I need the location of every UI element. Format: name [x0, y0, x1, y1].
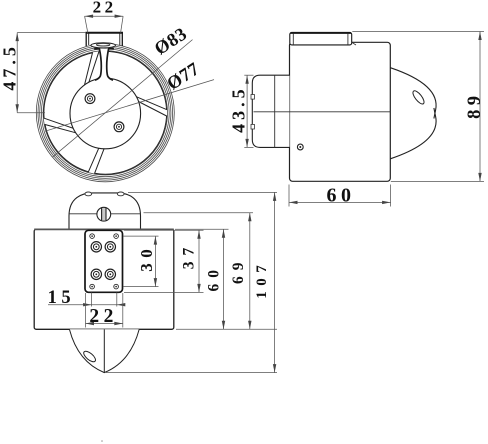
svg-text:69: 69 — [230, 256, 247, 284]
dimension 22 (front top) — [85, 15, 124, 17]
motor screw side — [297, 144, 303, 150]
blade hole ellipse — [411, 89, 426, 106]
side view main body — [290, 42, 391, 181]
svg-text:22: 22 — [89, 306, 118, 327]
dimension 47.5 (front left) — [16, 33, 18, 113]
fan blade profile right — [390, 68, 436, 119]
terminal plate — [85, 230, 123, 292]
plate screw — [114, 234, 119, 239]
dimension 60 (bottom) — [223, 229, 225, 329]
flange slot top — [251, 95, 254, 100]
page dot — [101, 440, 103, 442]
dimension 107 — [274, 192, 276, 372]
hub screw lower-right — [114, 122, 124, 132]
dimension 43.5 — [246, 75, 248, 147]
svg-text:107: 107 — [254, 260, 270, 299]
svg-text:15: 15 — [48, 288, 76, 308]
plate screw — [90, 234, 95, 239]
junction box front — [86, 33, 124, 46]
dimension 30 — [154, 236, 156, 287]
terminal screw — [91, 242, 101, 252]
terminal screw — [91, 269, 101, 279]
dome dimple left — [85, 192, 92, 196]
mount foot ellipse — [91, 43, 116, 48]
diameter leader line Ø77 — [45, 80, 214, 132]
svg-text:47.5: 47.5 — [0, 43, 19, 91]
support strut — [95, 49, 113, 80]
fan blade SW — [45, 125, 100, 172]
svg-text:37: 37 — [181, 242, 198, 270]
svg-text:43.5: 43.5 — [229, 85, 249, 133]
svg-text:60: 60 — [327, 184, 356, 206]
bottom view junction box dome — [69, 193, 141, 229]
front view outer tube rings — [36, 44, 174, 182]
inlet flange (left protrusion) — [252, 75, 289, 147]
motor hub — [70, 78, 141, 149]
fan blade NW — [44, 53, 93, 130]
hub screw upper-left — [85, 94, 95, 104]
dome screw — [97, 207, 111, 221]
dimension 89 — [479, 32, 481, 182]
dimension 60 (side) — [289, 201, 391, 203]
dome dimple right — [117, 192, 124, 196]
dimension 22 (bottom) — [85, 293, 87, 328]
svg-text:30: 30 — [137, 244, 156, 272]
plate screw — [90, 284, 95, 289]
svg-text:89: 89 — [465, 92, 485, 119]
blade cone bottom — [69, 329, 139, 372]
svg-text:60: 60 — [205, 264, 222, 292]
fan blade NE — [88, 51, 166, 109]
flange slot bottom — [251, 124, 254, 129]
plate screw — [114, 284, 119, 289]
side view center line — [254, 111, 391, 113]
diameter leader line Ø83 — [52, 40, 192, 158]
terminal screw — [105, 242, 115, 252]
bottom view body rect — [34, 229, 174, 329]
junction box side — [290, 32, 356, 45]
terminal screw — [105, 269, 115, 279]
dimension 15 — [91, 293, 93, 307]
dimension 37 — [198, 230, 200, 292]
dimension 69 — [249, 213, 251, 330]
cone hole ellipse — [82, 349, 97, 363]
svg-text:22: 22 — [93, 0, 117, 17]
fan blade SE — [95, 101, 167, 175]
